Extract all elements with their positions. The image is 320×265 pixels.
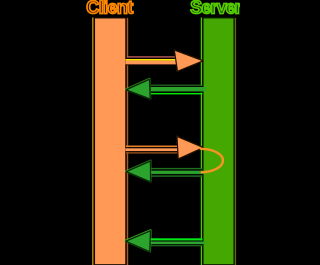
svg-text:Server: Server [190, 0, 240, 17]
svg-text:Client: Client [86, 0, 133, 17]
